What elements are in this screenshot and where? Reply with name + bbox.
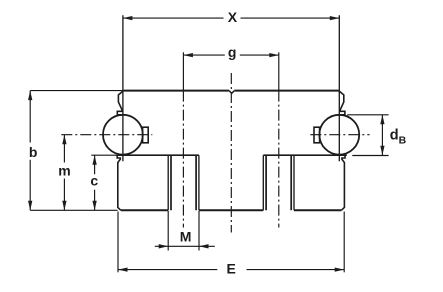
- dimension X left arrow: [123, 16, 132, 20]
- dimension b bottom arrow: [28, 201, 32, 211]
- svg-text:E: E: [227, 260, 236, 276]
- dimension g line: [183, 54, 278, 56]
- part right seal profile upper: [339, 91, 345, 115]
- extension line g right above part: [278, 52, 280, 90]
- dimension b top arrow: [28, 91, 32, 101]
- centerline right slot vertical: [278, 91, 280, 228]
- dimension g right arrow: [269, 53, 279, 57]
- svg-text:g: g: [228, 44, 237, 60]
- dimension m top arrow: [62, 135, 66, 145]
- tab left of right ball: [314, 127, 320, 143]
- dimension m line: [63, 135, 65, 211]
- part left seal profile upper: [117, 91, 123, 115]
- centerline left ball horizontal: [61, 134, 152, 136]
- centerline middle vertical: [230, 73, 232, 233]
- svg-text:M: M: [180, 228, 192, 244]
- right slot inner thread walls: [266, 155, 291, 210]
- dimension E left arrow: [118, 267, 128, 271]
- part left seal profile lower and left face: [117, 155, 121, 210]
- extension line E right: [343, 212, 345, 273]
- svg-text:X: X: [228, 9, 238, 25]
- extension line left ball centerline vertical: [122, 15, 124, 161]
- extension line E left: [117, 212, 119, 273]
- dimension X line: [123, 17, 339, 19]
- ball circle right: [319, 115, 359, 155]
- svg-text:c: c: [90, 173, 98, 189]
- extension line M left: [167, 211, 169, 251]
- extension line top edge left: [30, 90, 123, 92]
- part bottom face: [121, 209, 341, 211]
- dimension E right arrow: [335, 267, 345, 271]
- dimension M left arrow: [159, 244, 169, 248]
- dimension M right arrow: [199, 244, 209, 248]
- extension line right ball centerline vertical: [338, 15, 340, 161]
- dimension dB line: [381, 115, 383, 155]
- left slot outer walls: [168, 155, 199, 210]
- center V-notch: [229, 91, 234, 94]
- shoulder line left with slot top: [117, 154, 199, 156]
- dimension dB top arrow: [380, 115, 384, 125]
- svg-text:m: m: [58, 162, 70, 178]
- svg-text:d: d: [390, 128, 399, 144]
- dimension X right arrow: [330, 16, 340, 20]
- dimension E line: [118, 269, 344, 271]
- extension line dB bottom: [352, 155, 388, 157]
- dimension c top arrow: [92, 155, 96, 165]
- centerline left slot vertical: [182, 91, 184, 228]
- dimension m bottom arrow: [62, 201, 66, 211]
- svg-text:b: b: [29, 144, 38, 160]
- extension line dB top: [347, 114, 388, 116]
- tab right of left ball: [143, 127, 149, 143]
- left slot inner thread walls: [171, 155, 196, 210]
- extension line bottom left: [30, 209, 117, 211]
- extension line g left above part: [182, 52, 184, 90]
- dimension dB bottom arrow: [380, 146, 384, 156]
- shoulder line right with slot top: [263, 154, 347, 156]
- part top edge with center V-notch: [124, 90, 339, 92]
- ball circle left: [103, 115, 143, 155]
- extension line M right: [198, 211, 200, 251]
- extension line c shoulder left: [91, 154, 117, 156]
- dimension M line: [155, 245, 215, 247]
- dimension g left arrow: [183, 53, 193, 57]
- dimension b line: [29, 91, 31, 211]
- centerline right ball horizontal: [310, 134, 369, 136]
- part right seal profile lower and right face: [341, 155, 345, 210]
- dimension c bottom arrow: [92, 201, 96, 211]
- right slot outer walls: [263, 155, 294, 210]
- dimension c line: [94, 155, 96, 210]
- svg-text:B: B: [399, 135, 407, 147]
